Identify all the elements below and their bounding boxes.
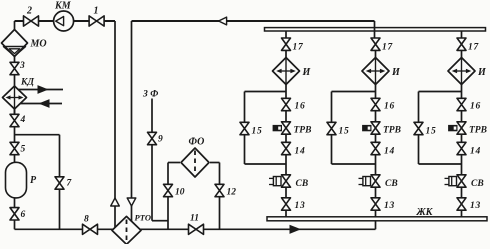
- svg-text:РТО: РТО: [135, 212, 152, 222]
- svg-text:11: 11: [190, 213, 199, 223]
- svg-text:17: 17: [468, 43, 479, 53]
- svg-text:СВ: СВ: [471, 179, 484, 189]
- svg-text:2: 2: [26, 6, 32, 17]
- svg-text:15: 15: [426, 126, 437, 136]
- svg-text:16: 16: [384, 101, 395, 111]
- svg-text:9: 9: [158, 135, 163, 145]
- svg-text:14: 14: [295, 147, 306, 157]
- svg-text:17: 17: [382, 43, 393, 53]
- svg-text:Р: Р: [30, 175, 37, 186]
- svg-text:4: 4: [20, 115, 26, 125]
- svg-text:СВ: СВ: [296, 179, 309, 189]
- svg-text:ФО: ФО: [189, 137, 205, 148]
- svg-text:13: 13: [470, 201, 481, 211]
- svg-text:КД: КД: [20, 78, 34, 88]
- svg-text:1: 1: [94, 6, 99, 17]
- svg-text:15: 15: [252, 126, 263, 136]
- svg-text:ТРВ: ТРВ: [294, 126, 312, 136]
- svg-text:17: 17: [293, 43, 304, 53]
- svg-text:6: 6: [21, 210, 26, 220]
- svg-text:3: 3: [19, 61, 25, 71]
- svg-text:16: 16: [470, 101, 481, 111]
- svg-text:5: 5: [21, 145, 26, 155]
- svg-text:И: И: [477, 67, 487, 78]
- svg-text:10: 10: [175, 187, 185, 197]
- svg-text:13: 13: [384, 201, 395, 211]
- svg-text:И: И: [302, 67, 312, 78]
- svg-text:8: 8: [84, 215, 89, 225]
- svg-text:12: 12: [227, 187, 237, 197]
- svg-text:ТРВ: ТРВ: [469, 126, 487, 136]
- svg-text:16: 16: [295, 101, 306, 111]
- svg-text:ЖК: ЖК: [416, 207, 434, 218]
- svg-text:МО: МО: [30, 39, 47, 50]
- svg-text:14: 14: [384, 147, 395, 157]
- svg-text:14: 14: [470, 147, 481, 157]
- svg-text:СВ: СВ: [385, 179, 398, 189]
- svg-text:И: И: [391, 67, 401, 78]
- svg-text:З Ф: З Ф: [142, 90, 158, 100]
- svg-text:КМ: КМ: [54, 1, 72, 12]
- svg-text:ТРВ: ТРВ: [383, 126, 401, 136]
- svg-text:15: 15: [339, 126, 350, 136]
- svg-text:13: 13: [295, 201, 306, 211]
